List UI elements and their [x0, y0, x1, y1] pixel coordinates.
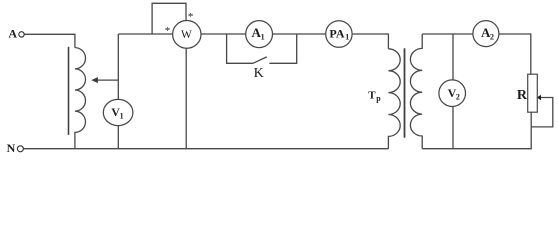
- svg-text:N: N: [7, 141, 16, 155]
- svg-text:2: 2: [490, 32, 494, 41]
- svg-text:1: 1: [261, 33, 265, 42]
- svg-text:T: T: [368, 89, 376, 101]
- svg-text:1: 1: [120, 112, 124, 121]
- svg-text:R: R: [517, 88, 528, 103]
- svg-text:2: 2: [456, 92, 460, 101]
- svg-text:*: *: [165, 25, 171, 37]
- svg-text:p: p: [376, 94, 381, 103]
- svg-text:K: K: [254, 66, 264, 81]
- svg-text:PA: PA: [329, 27, 344, 41]
- svg-text:*: *: [188, 11, 194, 23]
- svg-text:A: A: [8, 26, 17, 40]
- svg-text:W: W: [181, 29, 192, 41]
- svg-text:1: 1: [345, 33, 349, 42]
